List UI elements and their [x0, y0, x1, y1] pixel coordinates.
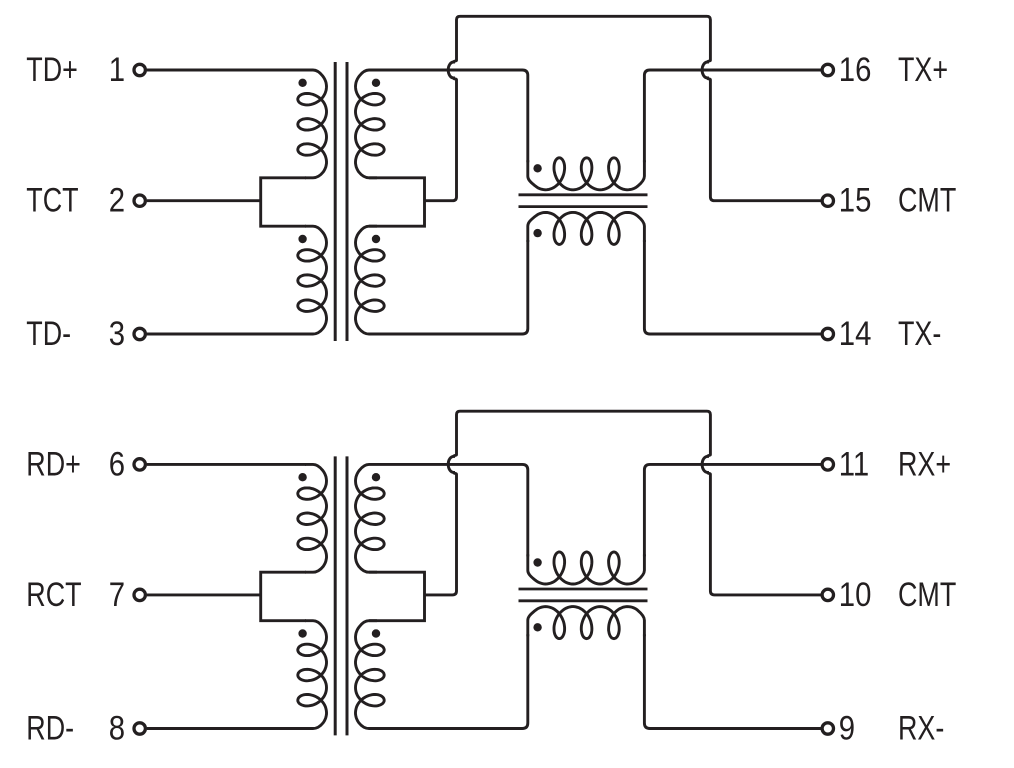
svg-text:6: 6 — [109, 444, 125, 483]
svg-text:RX-: RX- — [898, 708, 944, 747]
svg-text:TD-: TD- — [26, 314, 71, 353]
svg-text:TX+: TX+ — [898, 50, 948, 89]
svg-text:16: 16 — [839, 50, 872, 89]
svg-text:CMT: CMT — [898, 575, 956, 614]
svg-text:9: 9 — [839, 708, 855, 747]
svg-text:RD-: RD- — [26, 708, 74, 747]
svg-text:1: 1 — [109, 50, 125, 89]
svg-text:2: 2 — [109, 180, 125, 219]
svg-text:RX+: RX+ — [898, 444, 951, 483]
svg-text:15: 15 — [839, 180, 872, 219]
svg-text:7: 7 — [109, 575, 125, 614]
svg-text:TX-: TX- — [898, 314, 941, 353]
svg-text:8: 8 — [109, 708, 125, 747]
svg-text:11: 11 — [839, 444, 869, 483]
svg-text:3: 3 — [109, 314, 125, 353]
svg-text:TCT: TCT — [26, 180, 78, 219]
svg-text:14: 14 — [839, 314, 872, 353]
svg-text:CMT: CMT — [898, 180, 956, 219]
svg-text:RD+: RD+ — [26, 444, 81, 483]
svg-text:TD+: TD+ — [26, 50, 78, 89]
svg-text:10: 10 — [839, 575, 872, 614]
svg-text:RCT: RCT — [26, 575, 81, 614]
